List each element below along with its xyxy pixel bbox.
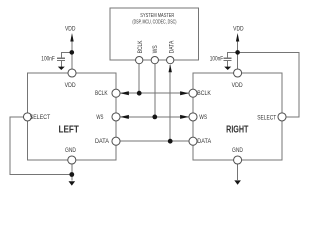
left pin BCLK [112,89,120,97]
left pin SELECT [23,113,31,121]
ground arrow under C1 [58,67,65,70]
svg-text:BCLK: BCLK [197,90,211,97]
svg-text:SYSTEM MASTER: SYSTEM MASTER [140,13,174,19]
svg-text:VDD: VDD [65,82,76,89]
master pin WS [151,56,158,63]
node VDD-R junction [235,50,240,55]
wire BCLK vertical [138,64,140,93]
arrowheads [58,33,241,186]
right mic U2 box [193,73,282,160]
capacitor C2 plates [224,58,232,60]
wire right cap branch [228,52,238,58]
svg-text:DATA: DATA [197,138,212,145]
VDD symbol arrow left [70,33,73,42]
master pin DATA [167,56,174,63]
svg-text:WS: WS [96,114,103,121]
node DATA junction [168,139,173,144]
svg-text:DATA: DATA [95,138,110,145]
svg-text:SELECT: SELECT [257,114,276,121]
svg-text:RIGHT: RIGHT [226,125,249,136]
right pin GND [234,156,242,164]
svg-text:(DSP, MCU, CODEC, DSC): (DSP, MCU, CODEC, DSC) [132,20,176,26]
pin name labels [30,26,277,154]
node GND-L junction [69,172,74,177]
node VDD-L junction [70,50,75,55]
left pin VDD [68,69,76,77]
svg-text:SELECT: SELECT [30,114,51,121]
right pin WS [189,113,197,121]
svg-text:WS: WS [153,45,159,53]
svg-text:100nF: 100nF [41,56,55,63]
right pin SELECT [278,113,286,121]
wire VDD rail right [237,38,239,69]
wire WS row [120,116,189,118]
capacitor C1 plates [57,58,65,60]
system master box U3 [110,8,199,60]
svg-text:WS: WS [199,114,207,121]
wire VDD rail left [71,38,73,69]
svg-text:100nF: 100nF [210,56,224,63]
ground arrow left mic [69,181,76,185]
svg-text:VDD: VDD [65,26,76,33]
svg-text:GND: GND [232,147,243,154]
master pin BCLK [136,56,143,63]
node BCLK junction [137,91,142,96]
wire C1 to ground [60,61,62,67]
svg-text:BCLK: BCLK [138,40,144,53]
BCLK arrow into left mic [120,91,129,95]
wire DATA vertical [169,65,171,141]
wire left cap branch [61,52,72,58]
wire C2 to ground [227,61,229,67]
right pin VDD [234,69,242,77]
node WS junction [152,115,157,120]
BCLK arrow into right mic [180,91,189,95]
right pin BCLK [189,89,197,97]
DATA up arrow at master [169,64,172,72]
ground arrow under C2 [224,67,231,70]
WS arrow into left mic [120,115,129,119]
svg-text:LEFT: LEFT [59,125,80,136]
svg-text:GND: GND [65,147,76,154]
wire BCLK row [120,92,189,94]
svg-text:VDD: VDD [233,26,244,33]
wire right gnd [237,164,239,180]
right pin DATA [189,137,197,145]
svg-text:VDD: VDD [232,82,243,89]
left pin WS [112,113,120,121]
VDD symbol arrow right [236,33,239,42]
left pin GND [68,156,76,164]
wire right select to VDD [238,52,299,117]
wire WS vertical [154,64,156,117]
WS arrow into right mic [180,115,189,119]
left mic U1 box [28,73,117,160]
wire left gnd [71,164,73,181]
ground arrow right mic [234,180,241,184]
pin circles [23,56,286,164]
svg-text:BCLK: BCLK [95,90,108,97]
svg-text:DATA: DATA [170,41,176,54]
left pin DATA [112,137,120,145]
wire DATA row [120,140,189,142]
wire left select to gnd [10,117,72,175]
